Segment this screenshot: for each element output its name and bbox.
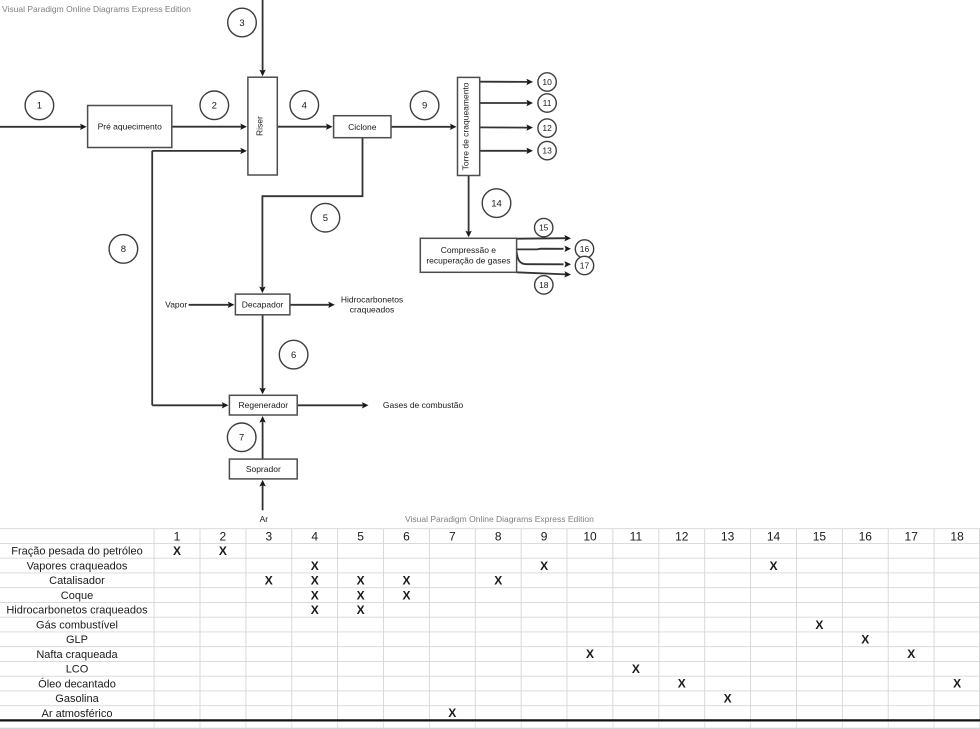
svg-text:Compressão e: Compressão e (441, 245, 497, 255)
svg-text:9: 9 (541, 529, 548, 543)
svg-text:9: 9 (422, 101, 427, 112)
svg-text:12: 12 (542, 123, 552, 133)
node circle 15 (535, 218, 553, 236)
node circle 10 (538, 73, 556, 91)
svg-text:X: X (219, 544, 227, 558)
svg-text:17: 17 (580, 261, 590, 271)
svg-text:GLP: GLP (66, 634, 88, 646)
svg-text:4: 4 (302, 100, 307, 111)
svg-text:11: 11 (543, 98, 552, 108)
svg-text:Soprador: Soprador (246, 464, 281, 474)
wire 13: Torre output (480, 148, 533, 154)
svg-text:X: X (357, 603, 365, 617)
svg-text:X: X (402, 574, 410, 588)
svg-text:16: 16 (859, 529, 873, 543)
wire Ar into Soprador (259, 480, 265, 510)
node circle 17 (575, 256, 593, 274)
box Riser (248, 77, 277, 175)
svg-text:18: 18 (950, 529, 964, 543)
svg-text:2: 2 (220, 529, 227, 543)
svg-text:Gases de combustão: Gases de combustão (383, 400, 464, 410)
svg-text:LCO: LCO (66, 664, 89, 676)
svg-text:X: X (311, 559, 319, 573)
label Vapor (165, 300, 187, 310)
svg-text:craqueados: craqueados (350, 305, 394, 315)
svg-text:15: 15 (813, 529, 827, 543)
svg-text:X: X (357, 574, 365, 588)
svg-text:Gás combustível: Gás combustível (36, 620, 118, 632)
svg-text:X: X (540, 559, 548, 573)
svg-text:Visual Paradigm Online Diagram: Visual Paradigm Online Diagrams Express … (405, 514, 594, 524)
wire 12: Torre output (480, 124, 533, 130)
svg-text:Hidrocarbonetos craqueados: Hidrocarbonetos craqueados (6, 605, 148, 617)
table clipped next row hint (0, 722, 980, 729)
svg-text:1: 1 (174, 529, 181, 543)
table row Coque (61, 588, 411, 602)
table row Gás combustível (36, 618, 823, 632)
box Decapador (235, 294, 290, 315)
table row LCO (66, 662, 640, 676)
box Torre de craqueamento (458, 77, 480, 175)
node circle 1 (25, 91, 54, 120)
box Ciclone (334, 116, 391, 138)
svg-text:Decapador: Decapador (242, 300, 284, 310)
label Ar (260, 514, 269, 524)
svg-text:X: X (861, 633, 869, 647)
table thick bottom border (0, 719, 980, 721)
wire 9: Ciclone to Torre de craqueamento (391, 124, 457, 130)
svg-text:10: 10 (542, 77, 552, 87)
svg-text:16: 16 (580, 244, 590, 254)
wire 15: Compressão output (517, 235, 571, 241)
wire 5: Ciclone bottom to Decapador top (259, 138, 362, 293)
node circle 14 (482, 189, 511, 218)
label Hidrocarbonetos craqueados (341, 294, 403, 314)
node circle 8 (109, 235, 138, 264)
wire Regenerador to Gases de combustão (297, 402, 368, 408)
svg-text:Torre de craqueamento: Torre de craqueamento (461, 82, 471, 170)
box Compressão e recuperação de gases (420, 238, 516, 272)
svg-text:6: 6 (291, 350, 296, 361)
table row Vapores craqueados (27, 559, 778, 573)
svg-text:X: X (311, 574, 319, 588)
svg-text:X: X (311, 588, 319, 602)
svg-text:3: 3 (265, 529, 272, 543)
wire 7: Soprador to Regenerador (259, 416, 265, 459)
svg-text:Vapores craqueados: Vapores craqueados (27, 561, 128, 573)
box Soprador (229, 459, 297, 479)
table row Gasolina (55, 692, 731, 706)
svg-text:X: X (265, 574, 273, 588)
svg-text:3: 3 (239, 18, 244, 29)
svg-text:Coque: Coque (61, 590, 93, 602)
wire Vapor into Decapador (189, 302, 235, 308)
node circle 2 (200, 91, 229, 120)
svg-text:17: 17 (905, 529, 919, 543)
svg-text:10: 10 (583, 529, 597, 543)
svg-text:6: 6 (403, 529, 410, 543)
svg-text:7: 7 (449, 529, 456, 543)
table header numbers 1-18 (174, 529, 964, 543)
svg-text:Riser: Riser (255, 116, 265, 136)
svg-text:Visual Paradigm Online Diagram: Visual Paradigm Online Diagrams Express … (2, 4, 191, 14)
table row Ar atmosférico (42, 706, 457, 720)
svg-text:13: 13 (721, 529, 735, 543)
wire 8: Regenerador riser return line (vertical + into Riser + into Regenerador) (152, 148, 247, 409)
svg-text:2: 2 (212, 101, 217, 112)
svg-text:X: X (678, 677, 686, 691)
svg-text:X: X (769, 559, 777, 573)
table row GLP (66, 633, 869, 647)
svg-text:Ar atmosférico: Ar atmosférico (42, 708, 113, 720)
table row Hidrocarbonetos craqueados (6, 603, 364, 617)
table row Fração pesada do petróleo (11, 544, 227, 558)
svg-text:X: X (907, 647, 915, 661)
wire 14: Torre bottom to Compressão (465, 176, 471, 238)
wire Decapador to Hidrocarbonetos craqueados (290, 302, 335, 308)
watermark bottom "Visual Paradigm Online Diagrams Express Edition" (405, 514, 594, 524)
label Gases de combustão (383, 400, 464, 410)
svg-text:13: 13 (542, 146, 552, 156)
node circle 16 (575, 240, 593, 258)
svg-text:Ciclone: Ciclone (348, 122, 377, 132)
svg-text:14: 14 (767, 529, 781, 543)
svg-text:X: X (494, 574, 502, 588)
node circle 5 (311, 203, 340, 232)
node circle 3 (228, 8, 257, 37)
svg-text:X: X (448, 706, 456, 720)
svg-text:Gasolina: Gasolina (55, 693, 99, 705)
wire 10: Torre output (480, 79, 533, 85)
svg-text:X: X (586, 647, 594, 661)
svg-text:X: X (953, 677, 961, 691)
svg-text:5: 5 (323, 213, 328, 224)
svg-text:18: 18 (539, 280, 549, 290)
svg-text:X: X (402, 588, 410, 602)
table row Nafta craqueada (36, 647, 915, 661)
svg-text:Hidrocarbonetos: Hidrocarbonetos (341, 294, 403, 304)
box Regenerador (229, 395, 297, 415)
svg-text:8: 8 (495, 529, 502, 543)
node circle 7 (227, 423, 256, 452)
table grid lines (0, 529, 980, 721)
svg-text:15: 15 (539, 223, 549, 233)
svg-text:4: 4 (311, 529, 318, 543)
svg-text:8: 8 (121, 244, 126, 255)
wire 16: Compressão output (517, 246, 571, 252)
watermark top-left "Visual Paradigm Online Diagrams Express Edition" (2, 4, 191, 14)
svg-text:7: 7 (239, 433, 244, 444)
svg-text:X: X (173, 544, 181, 558)
svg-text:X: X (724, 692, 732, 706)
svg-text:Pré aquecimento: Pré aquecimento (98, 122, 163, 132)
wire 2: Pré aquecimento to Riser (172, 124, 247, 130)
svg-text:14: 14 (491, 198, 502, 209)
wire 4: Riser to Ciclone (277, 124, 332, 130)
wire 17: Compressão output (517, 252, 571, 268)
svg-text:1: 1 (37, 101, 42, 112)
svg-text:Catalisador: Catalisador (49, 575, 105, 587)
svg-text:Fração pesada do petróleo: Fração pesada do petróleo (11, 546, 142, 558)
svg-text:Ar: Ar (260, 514, 269, 524)
svg-text:X: X (632, 662, 640, 676)
table row Óleo decantado (38, 677, 961, 691)
wire 3: vertical feed into Riser top (259, 0, 265, 76)
svg-text:Vapor: Vapor (165, 300, 187, 310)
node circle 11 (538, 94, 556, 112)
node circle 18 (535, 276, 553, 294)
svg-text:12: 12 (675, 529, 689, 543)
svg-text:X: X (815, 618, 823, 632)
svg-text:Nafta craqueada: Nafta craqueada (36, 649, 118, 661)
svg-text:11: 11 (630, 529, 643, 543)
svg-text:recuperação de gases: recuperação de gases (426, 256, 510, 266)
svg-text:Óleo decantado: Óleo decantado (38, 677, 116, 690)
node circle 12 (538, 119, 556, 137)
node circle 9 (410, 91, 439, 120)
svg-text:X: X (357, 588, 365, 602)
node circle 6 (279, 340, 308, 369)
wire 11: Torre output (480, 100, 533, 106)
wire 6: Decapador to Regenerador (259, 315, 265, 395)
wire 18: Compressão output (517, 271, 571, 277)
node circle 13 (538, 141, 556, 159)
wire 1: feed line into Pré aquecimento (0, 124, 87, 130)
svg-text:Regenerador: Regenerador (238, 400, 288, 410)
table row Catalisador (49, 574, 502, 588)
svg-text:X: X (311, 603, 319, 617)
svg-text:5: 5 (357, 529, 364, 543)
node circle 4 (290, 91, 319, 120)
box Pré aquecimento (88, 106, 172, 148)
